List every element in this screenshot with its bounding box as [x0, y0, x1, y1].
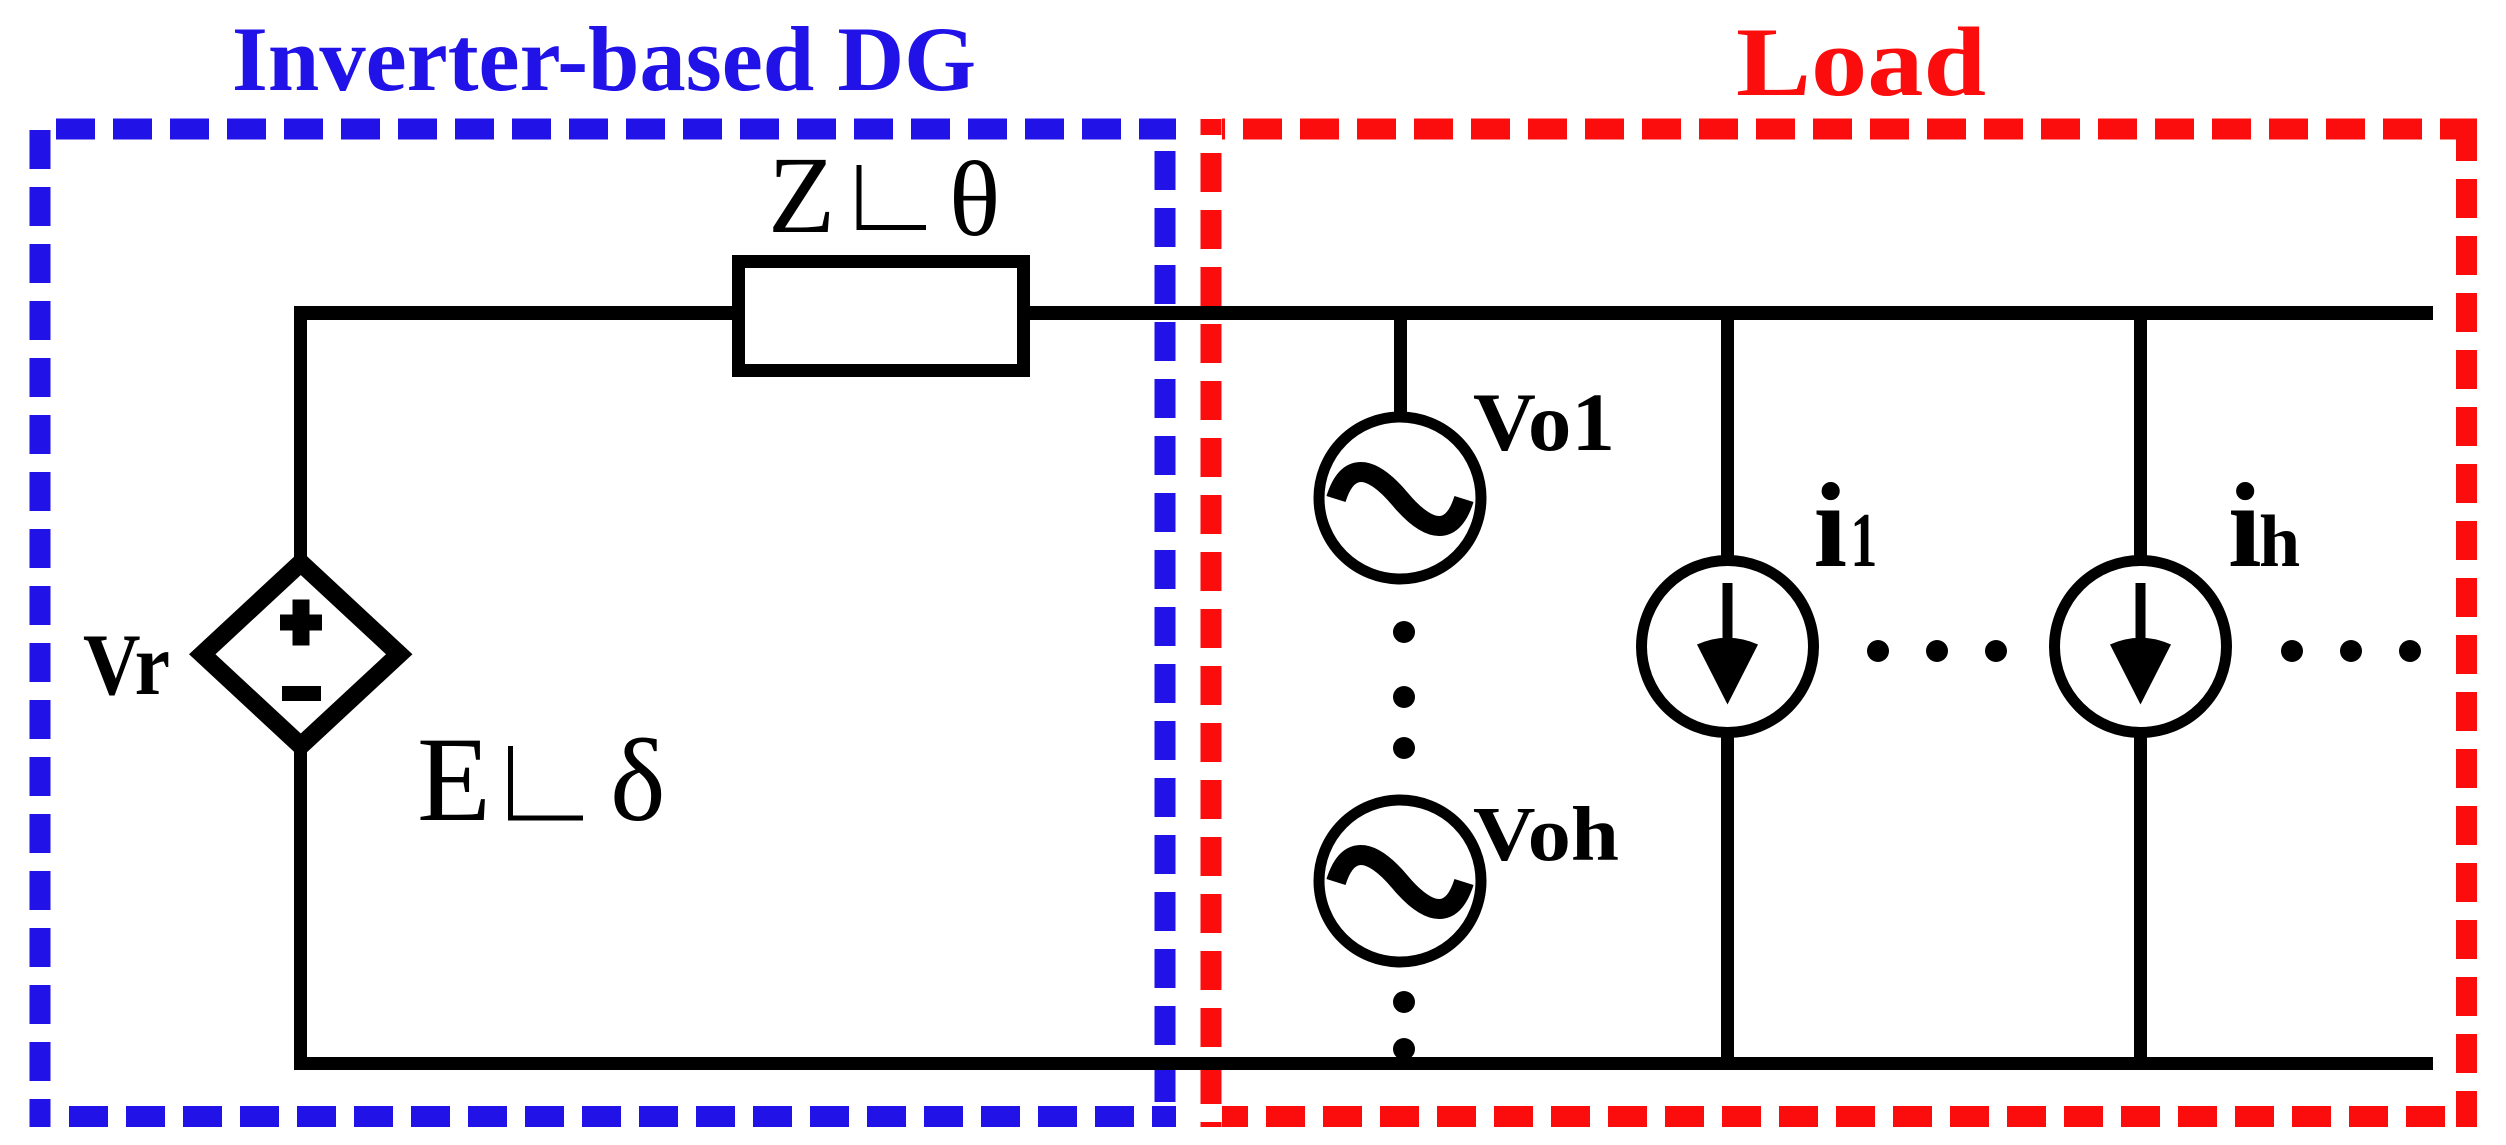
svg-text:i: i: [1814, 459, 1848, 593]
dependent voltage source E (diamond): [202, 563, 399, 746]
current source ih: [2055, 561, 2227, 733]
wire: stub from i1 to bottom bus: [1721, 728, 1734, 1063]
svg-text:E: E: [417, 713, 491, 847]
AC source Vo1: [1319, 417, 1481, 579]
minus sign: [282, 686, 321, 701]
dots between Vo1 and Voh: [1393, 621, 1415, 759]
svg-text:Load: Load: [1736, 8, 1986, 117]
wire: left vertical above source: [294, 306, 307, 600]
wire: stub from top bus to current source ih: [2134, 313, 2147, 565]
DG boundary box (blue dashed): [40, 119, 1176, 1127]
Load boundary box (red dashed): [1211, 119, 2477, 1127]
wire: stub from top bus to AC source Vo1: [1394, 313, 1407, 420]
wire: left vertical below source: [294, 700, 307, 1070]
plus sign: [280, 600, 322, 646]
dots below Voh: [1393, 991, 1415, 1060]
svg-text:h: h: [2259, 501, 2300, 583]
wire: stub from top bus to current source i1: [1721, 313, 1734, 565]
svg-text:Vr: Vr: [83, 617, 170, 714]
svg-text:Voh: Voh: [1473, 791, 1619, 877]
svg-text:Inverter-based DG: Inverter-based DG: [232, 9, 976, 111]
svg-text:1: 1: [1850, 499, 1877, 584]
resistor Z (impedance box): [739, 262, 1024, 371]
AC source Voh: [1319, 800, 1481, 962]
wire: top bus from source corner to right end: [294, 306, 2433, 320]
label E angle delta: [417, 713, 666, 847]
svg-text:θ: θ: [949, 141, 1000, 259]
dots after i1: [1867, 640, 2007, 662]
current source i1: [1642, 561, 1814, 733]
svg-text:i: i: [2228, 459, 2262, 593]
svg-text:Vo1: Vo1: [1473, 376, 1615, 468]
svg-text:Z: Z: [768, 134, 835, 256]
label Z angle theta: [768, 134, 1000, 259]
dots after ih: [2281, 640, 2421, 662]
wire: bottom bus: [294, 1057, 2433, 1070]
wire: stub from ih to bottom bus: [2134, 728, 2147, 1063]
svg-text:δ: δ: [610, 715, 666, 846]
